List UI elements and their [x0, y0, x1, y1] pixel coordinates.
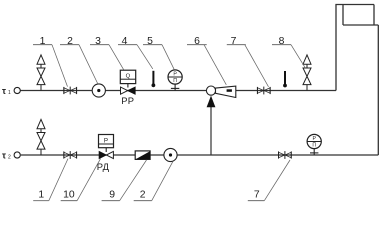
- svg-text:Р: Р: [104, 137, 108, 144]
- leader to flow meter return: [152, 162, 173, 201]
- thermometer (supply, near building): [283, 71, 287, 87]
- label 4 (top): [118, 36, 137, 47]
- svg-text:1: 1: [40, 36, 46, 47]
- flow regulator 3: actuator box with Q: [120, 70, 135, 83]
- label 2 (top): [60, 36, 79, 47]
- building penthouse left wall: [342, 5, 344, 26]
- pump/flow meter 2 (supply): [92, 84, 105, 97]
- label 1 (top): [33, 36, 52, 47]
- leader to pressure regulator valve: [77, 159, 100, 201]
- leader to valve 7 supply: [245, 45, 269, 87]
- svg-text:10: 10: [63, 189, 75, 200]
- svg-text:2: 2: [67, 36, 73, 47]
- label 8 (top): [272, 36, 291, 47]
- svg-text:РД: РД: [97, 161, 110, 172]
- leader to valve 1 return: [49, 159, 68, 201]
- valve 1 (supply): [64, 87, 77, 95]
- label 5 (top): [143, 36, 162, 47]
- svg-text:3: 3: [95, 36, 101, 47]
- air vent valve assembly (supply): [37, 55, 45, 91]
- building penthouse right wall: [373, 5, 375, 26]
- label 7 (bottom): [248, 189, 264, 200]
- valve 7 (supply): [257, 87, 270, 95]
- svg-text:1: 1: [38, 189, 44, 200]
- air vent valve assembly (return): [37, 119, 45, 155]
- valve 7 (return): [279, 151, 292, 159]
- elevator 6: nozzle mark: [227, 89, 232, 92]
- leader to regulator box 3: [109, 45, 124, 70]
- node T1 connection circle: [14, 87, 20, 93]
- flow meter 2 (return): [164, 148, 177, 161]
- svg-text:1: 1: [8, 90, 11, 96]
- building right wall: [377, 25, 379, 155]
- node T2 label: [2, 150, 11, 160]
- svg-text:Q: Q: [126, 73, 131, 79]
- pressure gauge 5 (supply): [168, 70, 182, 91]
- valve 1 (return): [64, 151, 77, 159]
- elevator 6: suction chamber circle: [206, 86, 215, 95]
- strainer/filter 9: [135, 151, 150, 160]
- svg-text:5: 5: [147, 36, 153, 47]
- label 9 (bottom): [102, 189, 120, 200]
- leader to thermometer 4: [137, 45, 153, 69]
- pressure regulator 10: stem: [105, 148, 107, 152]
- label 1 (bottom): [33, 189, 49, 200]
- label 2 (bottom): [134, 189, 152, 200]
- label 3 (top): [90, 36, 109, 47]
- elevator 6: mixing cone: [216, 86, 236, 97]
- leader to elevator 6: [204, 45, 226, 85]
- svg-text:8: 8: [279, 36, 285, 47]
- svg-text:7: 7: [254, 189, 260, 200]
- wire: supply pipe T1: [20, 90, 336, 92]
- thermometer 4 (supply): [152, 71, 156, 87]
- elevator feed line from return: [210, 104, 212, 155]
- building mid roof edge: [343, 24, 378, 26]
- svg-text:РР: РР: [121, 95, 134, 106]
- building roof top edge: [335, 4, 374, 6]
- svg-text:τ: τ: [2, 150, 6, 160]
- node T1 label: [2, 86, 11, 96]
- node T2 connection circle: [14, 152, 20, 158]
- leader to valve 7 return: [264, 160, 290, 201]
- label 6 (top): [187, 36, 207, 47]
- leader to vent assembly 8: [291, 45, 305, 68]
- leader to valve 1 supply: [52, 45, 68, 87]
- leader to pump 2 supply: [79, 45, 98, 84]
- svg-text:6: 6: [194, 36, 200, 47]
- elevator feed arrow: [207, 96, 216, 108]
- pressure regulator 10: control valve body: [99, 151, 113, 158]
- air vent valve assembly 8: [303, 55, 311, 91]
- leader to strainer 9: [120, 160, 147, 201]
- building left wall: [335, 5, 337, 91]
- svg-text:τ: τ: [2, 86, 6, 96]
- svg-text:2: 2: [140, 189, 146, 200]
- leader to gauge 5: [162, 45, 174, 70]
- flow regulator 3: control valve body: [121, 87, 136, 94]
- wire: return pipe T2: [21, 154, 379, 156]
- label 7 (top): [227, 36, 246, 47]
- svg-text:4: 4: [122, 36, 128, 47]
- pressure regulator 10: actuator box with P: [99, 135, 114, 148]
- svg-text:2: 2: [8, 155, 11, 161]
- label 10 (bottom): [61, 189, 77, 200]
- svg-text:9: 9: [109, 189, 115, 200]
- svg-text:7: 7: [231, 36, 237, 47]
- pressure gauge (return): [307, 134, 321, 155]
- flow regulator 3: stem: [127, 84, 129, 88]
